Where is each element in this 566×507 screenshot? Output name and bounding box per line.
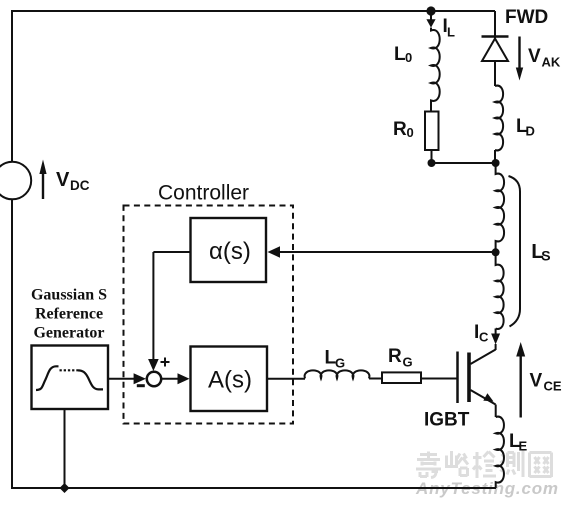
block alpha(s) — [191, 218, 267, 282]
transistor IGBT — [458, 350, 496, 405]
label IC — [474, 322, 489, 345]
wire A(s) output — [267, 378, 305, 380]
resistor R0 — [425, 112, 439, 151]
wire top — [12, 10, 495, 12]
voltage source VDC — [0, 162, 31, 200]
svg-text:0: 0 — [407, 125, 414, 140]
label LD — [516, 116, 535, 139]
svg-text:D: D — [526, 124, 535, 139]
wire emitter-LE — [495, 405, 497, 418]
svg-text:DC: DC — [70, 178, 90, 193]
inductor LE — [496, 417, 504, 488]
svg-text:α(s): α(s) — [209, 238, 251, 265]
svg-text:S: S — [541, 248, 550, 264]
VCE arrow — [516, 342, 525, 418]
svg-text:FWD: FWD — [505, 7, 548, 28]
svg-text:AK: AK — [542, 55, 561, 70]
wire feedback horizontal — [153, 251, 190, 253]
svg-text:R: R — [388, 346, 402, 367]
wire R0-node — [431, 150, 433, 163]
wire left upper — [11, 10, 13, 162]
wire tap to alpha — [279, 251, 496, 253]
IL arrow — [426, 11, 435, 28]
svg-text:CE: CE — [544, 379, 562, 394]
wire bottom — [11, 487, 496, 489]
label LE — [509, 431, 528, 454]
label L0 — [394, 44, 412, 65]
brace LS — [509, 176, 521, 327]
inductor LD — [495, 86, 503, 151]
wire summer to A(s) — [161, 378, 179, 380]
svg-text:V: V — [56, 169, 70, 191]
inductor LG — [305, 370, 370, 378]
svg-text:A(s): A(s) — [208, 367, 252, 394]
label IL — [443, 16, 456, 40]
node bottom junction — [60, 483, 70, 493]
wire diode-LD — [494, 61, 496, 86]
arrow into summer top — [148, 359, 159, 371]
wire LG-RG — [369, 378, 382, 380]
label Gaussian S Reference Generator — [31, 287, 107, 342]
block reference generator — [32, 346, 109, 410]
wire LD-node — [494, 150, 496, 163]
block A(s) — [191, 347, 268, 412]
svg-text:G: G — [403, 355, 413, 370]
svg-text:Generator: Generator — [33, 325, 104, 342]
arrow into alpha(s) — [268, 246, 281, 257]
arrow into summer left — [134, 373, 146, 384]
svg-text:G: G — [335, 356, 345, 371]
diode FWD — [482, 37, 509, 62]
summer node — [147, 372, 161, 386]
inductor L0 — [431, 28, 440, 112]
wire mid horizontal — [432, 162, 496, 164]
node LS mid tap — [492, 248, 500, 256]
node left mid — [428, 159, 436, 167]
label plus — [161, 358, 170, 367]
node IL junction — [426, 6, 435, 15]
controller dashed box — [124, 206, 294, 424]
watermark 嘉峪检测网 — [416, 451, 552, 479]
svg-text:E: E — [519, 439, 528, 454]
svg-text:C: C — [479, 330, 489, 345]
svg-text:R: R — [393, 119, 407, 140]
inductor LS lower — [496, 253, 504, 329]
gaussian curve — [36, 366, 103, 390]
wire diode top — [494, 11, 496, 38]
wire generator to bottom — [64, 409, 66, 488]
svg-text:Controller: Controller — [158, 182, 249, 205]
svg-text:Gaussian S: Gaussian S — [31, 287, 107, 304]
wire generator output — [108, 378, 136, 380]
IC arrow — [491, 329, 500, 351]
label LG — [325, 348, 346, 371]
svg-text:0: 0 — [405, 50, 412, 65]
resistor RG — [382, 372, 421, 383]
svg-text:Reference: Reference — [35, 306, 103, 323]
wire left lower — [11, 199, 13, 488]
inductor LS upper — [496, 163, 504, 253]
VAK arrow — [516, 37, 523, 81]
svg-text:V: V — [530, 371, 543, 392]
wire RG-gate — [421, 378, 457, 380]
label LS — [531, 240, 550, 264]
label RG — [388, 346, 413, 370]
VDC arrow — [39, 160, 46, 200]
wire feedback vertical — [152, 252, 154, 361]
node right mid — [492, 159, 500, 167]
svg-text:L: L — [447, 25, 455, 40]
svg-text:IGBT: IGBT — [424, 410, 470, 431]
label R0 — [393, 119, 414, 140]
arrow into A(s) — [178, 373, 190, 384]
label VCE — [530, 371, 562, 394]
label VAK — [528, 46, 561, 70]
svg-text:V: V — [528, 46, 541, 67]
label VDC — [56, 169, 90, 193]
label minus — [137, 384, 145, 387]
